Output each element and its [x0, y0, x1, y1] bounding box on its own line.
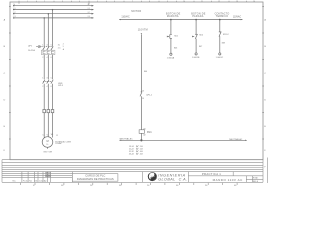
svg-text:14: 14 [253, 1, 255, 3]
svg-text:846: 846 [174, 47, 177, 49]
svg-text:300: 300 [176, 185, 179, 187]
svg-text:E: E [4, 126, 6, 128]
svg-text:50: 50 [33, 185, 35, 187]
svg-text:F: F [4, 150, 6, 152]
svg-text:840: 840 [144, 71, 147, 73]
svg-text:L3: L3 [14, 16, 16, 18]
svg-text:U1: U1 [43, 135, 45, 137]
svg-text:1 0601A: 1 0601A [167, 56, 175, 59]
wire overload to motor [44, 113, 52, 138]
svg-text:W1: W1 [51, 134, 54, 136]
wire contactor to overload [44, 84, 52, 110]
svg-text:L2: L2 [88, 12, 90, 14]
neutral bus [119, 138, 246, 141]
motor M1 [42, 134, 71, 153]
svg-text:F: F [264, 150, 266, 152]
svg-text:GLOBAL C.A.: GLOBAL C.A. [158, 178, 187, 182]
svg-text:DIAGRAMAS DE PRACTICAS: DIAGRAMAS DE PRACTICAS [77, 177, 114, 181]
control bus 110VAC [119, 16, 242, 21]
svg-text:MANDO 110V AC: MANDO 110V AC [213, 178, 243, 182]
svg-text:11: 11 [201, 1, 203, 3]
svg-text:MARCHA: MARCHA [167, 15, 179, 18]
svg-text:QF1-1: QF1-1 [146, 94, 153, 96]
svg-text:848: 848 [222, 43, 225, 45]
svg-text:12: 12 [56, 135, 58, 137]
svg-text:Dib: Dib [35, 181, 38, 183]
svg-text:TERMICO: TERMICO [216, 15, 228, 18]
svg-text:5: 5 [51, 78, 52, 80]
svg-text:D: D [4, 100, 6, 102]
node FR1 branch junction [219, 19, 221, 21]
svg-text:A2: A2 [144, 134, 146, 137]
svg-text:6: 6 [51, 86, 52, 88]
node S2 branch junction [195, 19, 197, 21]
svg-text:Comp: Comp [39, 181, 44, 183]
pushbutton S02 (boton de parada) branch [191, 12, 206, 59]
svg-text:C: C [4, 73, 6, 75]
svg-text:6: 6 [51, 57, 52, 59]
svg-text:C: C [264, 73, 266, 75]
svg-text:3x: 3x [58, 44, 60, 46]
svg-text:8: 8 [149, 1, 150, 3]
svg-text:A: A [4, 19, 6, 22]
svg-text:REV. A: REV. A [253, 180, 258, 183]
svg-text:3~: 3~ [46, 144, 49, 146]
svg-text:B: B [264, 46, 266, 48]
bus L3 [13, 16, 94, 19]
svg-text:F: F [265, 167, 267, 169]
svg-text:1 0601B: 1 0601B [192, 57, 200, 59]
svg-text:110VAC: 110VAC [233, 16, 242, 19]
svg-text:S01: S01 [174, 35, 179, 37]
svg-text:9: 9 [167, 1, 168, 3]
contact cross-reference table of KM1 [129, 145, 143, 155]
svg-text:Apr: Apr [44, 180, 47, 183]
svg-text:Norm: Norm [45, 175, 48, 177]
svg-text:PRACTICA 1: PRACTICA 1 [202, 172, 221, 176]
svg-text:10: 10 [183, 1, 185, 3]
svg-text:L2: L2 [14, 12, 16, 14]
svg-text:B: B [4, 46, 6, 48]
svg-text:2: 2 [42, 86, 43, 88]
svg-text:5: 5 [97, 1, 98, 3]
svg-text:847: 847 [199, 46, 202, 48]
svg-text:3: 3 [62, 1, 63, 3]
svg-text:MP-X: MP-X [58, 85, 63, 87]
svg-text:4-B: 4-B [140, 154, 144, 156]
circuit breaker QF1 [28, 44, 65, 59]
svg-text:3: 3 [47, 78, 48, 80]
thermal contact FR1 branch [215, 12, 230, 59]
svg-text:NEUTRAL AC: NEUTRAL AC [120, 138, 133, 141]
svg-text:MOTOR: MOTOR [131, 10, 141, 13]
svg-text:2.5: 2.5 [58, 48, 61, 50]
svg-text:4: 4 [47, 86, 48, 88]
contactor KM1 main contacts [42, 78, 63, 88]
svg-text:13: 13 [236, 1, 238, 3]
svg-text:110VTM: 110VTM [138, 29, 148, 32]
svg-text:KM1: KM1 [147, 132, 152, 134]
svg-text:Rev.: Rev. [13, 181, 17, 183]
bus L1 [13, 8, 94, 11]
aux contact QF1-1 [140, 91, 153, 130]
svg-text:D: D [264, 100, 266, 102]
overload relay FR1 [43, 110, 54, 113]
svg-text:L3: L3 [88, 16, 90, 18]
wire PLC output 110VTM to coil [131, 10, 147, 92]
svg-text:1: 1 [42, 78, 43, 80]
svg-text:350: 350 [205, 185, 208, 187]
svg-text:L1: L1 [14, 8, 16, 10]
svg-text:13: 13 [142, 91, 144, 93]
svg-text:PARADA: PARADA [192, 15, 203, 18]
svg-text:7: 7 [132, 1, 133, 3]
svg-text:CURSO DE PLC: CURSO DE PLC [85, 174, 105, 178]
svg-text:Nor: Nor [29, 180, 32, 183]
svg-text:400: 400 [234, 185, 237, 187]
svg-text:V1: V1 [47, 135, 49, 137]
svg-text:4: 4 [79, 1, 80, 3]
svg-text:E: E [264, 126, 266, 128]
svg-text:6: 6 [114, 1, 115, 3]
svg-text:L1: L1 [88, 8, 90, 10]
svg-text:2: 2 [42, 57, 43, 59]
svg-text:S02: S02 [199, 35, 204, 37]
svg-text:A: A [63, 48, 65, 51]
svg-text:NEUTRAL AC: NEUTRAL AC [229, 138, 242, 141]
svg-text:12: 12 [218, 1, 220, 3]
bus L2 [13, 12, 94, 15]
svg-text:QF1: QF1 [28, 46, 33, 48]
wire breaker to contactor [44, 55, 52, 80]
svg-text:M: M [47, 139, 49, 143]
svg-text:16-21A: 16-21A [28, 49, 35, 52]
svg-text:A: A [264, 19, 266, 22]
svg-text:250: 250 [147, 185, 150, 187]
svg-text:100: 100 [61, 185, 64, 187]
wire phase tap 3 (L3 to breaker) [43, 17, 45, 46]
wire phase tap 1 (L1 to breaker) [52, 9, 54, 46]
svg-text:Fecha: Fecha [23, 181, 28, 183]
svg-text:MOTOR: MOTOR [44, 151, 53, 153]
svg-text:4: 4 [47, 57, 48, 59]
coil KM1 [139, 128, 152, 141]
svg-text:43-44: 43-44 [129, 154, 134, 156]
svg-text:FR1-2: FR1-2 [223, 34, 230, 36]
svg-text:150: 150 [90, 185, 93, 187]
svg-text:14: 14 [142, 98, 144, 100]
svg-text:1 0601C: 1 0601C [216, 57, 224, 59]
node S1 branch junction [170, 19, 172, 21]
pushbutton S01 (boton de marcha) branch [166, 12, 181, 59]
svg-text:1: 1 [27, 1, 28, 3]
wire phase tap 2 (L2 to breaker) [48, 13, 50, 46]
svg-text:110VAC: 110VAC [121, 16, 130, 19]
svg-text:HOJA 1: HOJA 1 [253, 177, 258, 180]
svg-text:220VAC: 220VAC [55, 142, 62, 145]
svg-text:2: 2 [44, 1, 45, 3]
bus N (top phase bus line) [13, 4, 94, 7]
svg-text:200: 200 [119, 185, 122, 187]
